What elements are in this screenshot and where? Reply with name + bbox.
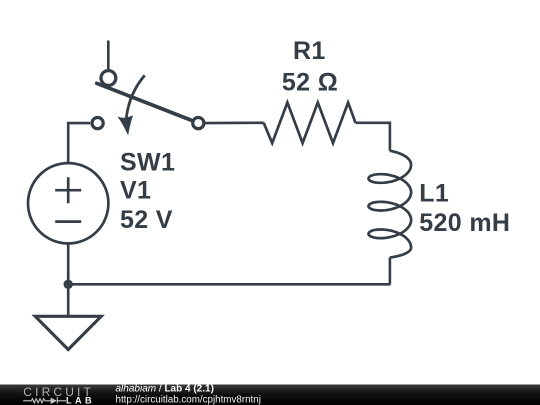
logo diode: [51, 398, 57, 404]
svg-text:LAB: LAB: [66, 395, 95, 405]
svg-text:V1: V1: [120, 177, 151, 205]
svg-text:L1: L1: [419, 179, 449, 207]
wire bottom rail: [68, 283, 390, 286]
ground: [35, 316, 101, 349]
wire resistor to inductor top: [356, 123, 390, 151]
svg-text:520 mH: 520 mH: [419, 209, 510, 237]
svg-text:52 Ω: 52 Ω: [282, 68, 338, 96]
svg-text:alhabiam / Lab 4 (2.1): alhabiam / Lab 4 (2.1): [116, 384, 214, 395]
junction node: [63, 280, 72, 289]
footer bar: [0, 385, 540, 405]
svg-text:SW1: SW1: [120, 149, 175, 177]
svg-text:R1: R1: [293, 37, 326, 65]
switch action arrow: [126, 75, 144, 117]
wire switch top stub: [107, 42, 110, 70]
switch pivot terminal: [101, 71, 116, 86]
svg-text:http://circuitlab.com/cpjhtmv8: http://circuitlab.com/cpjhtmv8rntnj: [116, 394, 261, 405]
wire inductor bottom: [389, 258, 392, 285]
logo resistor squiggle: [23, 397, 66, 404]
resistor R1: [264, 103, 356, 144]
wire switch-left to source: [68, 123, 90, 163]
wire switch right to resistor: [204, 122, 264, 125]
wire source to junction: [67, 244, 70, 285]
svg-text:52 V: 52 V: [120, 206, 173, 234]
switch left terminal: [92, 118, 103, 129]
voltage source V1: [28, 163, 108, 243]
switch lever: [97, 83, 192, 120]
switch right terminal: [193, 118, 204, 129]
wire junction to ground: [67, 284, 70, 316]
switch SW1: [92, 71, 204, 134]
inductor L1 coil: [369, 151, 412, 258]
